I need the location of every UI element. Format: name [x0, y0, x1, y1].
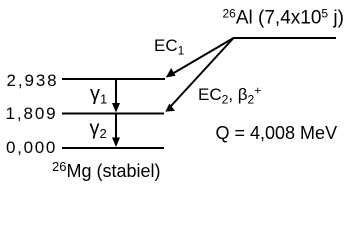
label EC1: [154, 36, 185, 58]
level line 2,938: [62, 78, 165, 80]
svg-text:EC2, β2+: EC2, β2+: [198, 84, 261, 107]
gamma2 vertical arrow: [112, 114, 120, 148]
label energy 0,000: [6, 138, 57, 157]
label gamma1: [90, 83, 107, 107]
svg-text:26Mg (stabiel): 26Mg (stabiel): [52, 159, 161, 181]
label Q value: [216, 123, 338, 143]
label 26Al (7,4x10^5 j): [223, 6, 344, 28]
level line 26Al parent state: [233, 37, 336, 39]
svg-text:1,809: 1,809: [6, 104, 58, 123]
arrow EC2 beta2+ transition: [165, 38, 233, 112]
svg-text:0,000: 0,000: [6, 138, 57, 157]
level line 0,000 ground state: [62, 147, 164, 149]
svg-text:EC1: EC1: [154, 36, 185, 58]
svg-text:Q = 4,008 MeV: Q = 4,008 MeV: [216, 123, 338, 143]
svg-text:γ1: γ1: [90, 83, 107, 107]
svg-text:26Al (7,4x105 j): 26Al (7,4x105 j): [223, 6, 344, 28]
label energy 2,938: [7, 71, 59, 90]
label EC2, beta2+: [198, 84, 261, 107]
level line 1,809: [62, 113, 164, 115]
label 26Mg (stabiel): [52, 159, 161, 181]
label gamma2: [90, 117, 107, 141]
svg-text:2,938: 2,938: [7, 71, 59, 90]
svg-text:γ2: γ2: [90, 117, 107, 141]
gamma1 vertical arrow: [112, 79, 120, 113]
arrow EC1 transition: [166, 38, 234, 78]
label energy 1,809: [6, 104, 58, 123]
